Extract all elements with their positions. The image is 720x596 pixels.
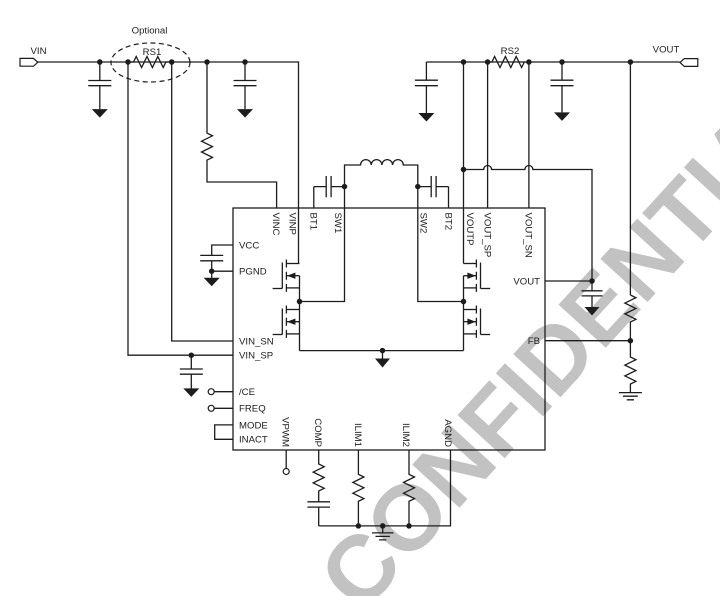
svg-text:VINC: VINC [270,213,281,236]
wire VOUT_SP vertical [487,62,489,208]
transistor Q2 (left low-side NMOS) [273,306,300,338]
wire MODE-INACT strap [215,425,233,439]
ground (power) under C1 [92,109,108,118]
capacitor C-COMP [307,502,330,526]
svg-text:VIN_SN: VIN_SN [239,336,274,347]
ground (power) under C6 [554,112,570,121]
IC U1 body [233,208,545,450]
node FB junction [628,338,634,344]
svg-text:ILIM2: ILIM2 [400,423,411,447]
wire VOUT rail [426,61,679,63]
svg-text:VOUT_SP: VOUT_SP [482,213,493,258]
svg-text:VIN: VIN [31,46,47,57]
terminal FREQ open circle [208,405,214,411]
svg-text:INACT: INACT [239,435,268,446]
wire SW2 pin to Q3/Q4 node [418,187,464,302]
capacitor C3 (VIN_SP filter) [180,355,203,388]
capacitor BT2 cap [418,176,449,208]
resistor R-COMP [313,450,324,502]
svg-text:VIN_SP: VIN_SP [239,351,273,362]
wire VIN_SN sense from RS1 right terminal [172,62,233,341]
resistor R-FB-bottom [625,341,636,393]
wire FB pin [545,340,630,342]
wire VOUT_SN vertical [528,62,530,208]
resistor RS2 [488,57,529,68]
transistor Q1 (left high-side NMOS) [273,260,300,292]
resistor R-ILIM1 [353,450,364,526]
svg-text:SW1: SW1 [332,213,343,234]
terminal VPWM open circle [283,469,289,475]
VIN rail node junctions [97,59,103,65]
ground (power) under PGND [204,278,220,287]
ground (power) under C3 [183,388,199,397]
dashed ellipse Optional around RS1 [111,43,190,82]
terminal VOUT [680,59,698,67]
capacitor BT1 cap [314,176,345,208]
ground (signal) bottom center [372,526,394,540]
svg-text:VPWM: VPWM [280,417,291,447]
capacitor C2 (VIN bypass at x=245) [234,62,257,109]
svg-text:VOUT_SN: VOUT_SN [522,213,533,258]
ground (power) under C5 [418,113,434,122]
node VOUT pin junction [589,278,595,284]
svg-text:VOUT: VOUT [513,276,540,287]
resistor R-ILIM2 [404,450,415,526]
capacitor C7 (on VOUT pin) [582,281,603,307]
capacitor C4 (VCC decoupling) [200,245,233,271]
wire VIN_SP sense from RS1 left terminal [128,62,233,355]
terminal /CE open circle [208,389,214,395]
svg-text:MODE: MODE [239,420,268,431]
capacitor C5 (VOUT left bypass) [415,62,438,113]
transistor Q4 (right low-side NMOS, mirrored) [464,306,491,338]
wire SW1 pin to Q1/Q2 node [300,187,345,302]
svg-text:VCC: VCC [239,240,259,251]
wire FREQ [214,407,233,409]
node VOUT rail junctions [461,59,467,65]
wire VIN rail [37,62,299,264]
node ground stem junction [380,523,386,529]
wire /CE [214,391,233,393]
wire FB top feed [629,62,631,295]
svg-text:RS1: RS1 [143,47,162,58]
svg-text:VOUT: VOUT [653,45,680,56]
ground (power) under C2 [237,109,253,118]
svg-text:FB: FB [528,336,540,347]
capacitor C6 (VOUT right bypass at x=562) [551,62,574,112]
svg-text:VOUTP: VOUTP [464,213,475,246]
svg-text:RS2: RS2 [501,46,520,57]
svg-text:SW2: SW2 [418,213,429,234]
node PGND junction [209,268,215,274]
wire VOUTP to VOUT pin with hops [464,166,593,282]
node ILIM1 junction [356,523,362,529]
transistor Q3 (right high-side NMOS, mirrored) [464,260,491,292]
ground (power) under C7 [585,307,600,316]
svg-text:ILIM1: ILIM1 [352,423,363,447]
node SW2 top junction [415,184,421,190]
node center junction [380,348,386,354]
wire VPWM lead [285,450,287,469]
svg-text:BT1: BT1 [307,213,318,231]
ground (power) center [375,359,390,368]
svg-text:FREQ: FREQ [239,404,266,415]
resistor R-FB-top [625,295,636,341]
node VOUTP junction [461,167,467,173]
svg-text:Optional: Optional [132,26,168,37]
wire Q1 source / Q2 chain down to center [299,276,301,351]
node SW1 top junction [342,184,348,190]
wire Q3 source / Q4 chain down to center [463,276,465,351]
svg-text:AGND: AGND [442,419,453,447]
svg-text:COMP: COMP [312,418,323,447]
wire PGND [212,271,233,278]
wire VOUT pin [545,280,592,282]
wire AGND lead and bottom rail [319,450,451,526]
svg-text:/CE: /CE [239,387,255,398]
wire VOUTP vertical [463,62,465,264]
resistor R-VINC and wire to VINC pin [202,62,277,208]
terminal VIN [20,58,38,66]
node VIN_SP junction [189,352,195,358]
svg-text:BT2: BT2 [442,213,453,231]
node ILIM2 junction [406,523,412,529]
inductor L1 [345,160,418,187]
svg-text:PGND: PGND [239,267,267,278]
ground (signal) under R-FB-bottom [619,393,642,400]
capacitor C1 (VIN bypass at x=99.8) [88,62,111,109]
node SW1 internal junction [297,299,303,305]
resistor RS1 [128,57,172,68]
node SW2 internal junction [461,299,467,305]
svg-text:VINP: VINP [287,213,298,235]
wire center source rail [300,351,464,359]
